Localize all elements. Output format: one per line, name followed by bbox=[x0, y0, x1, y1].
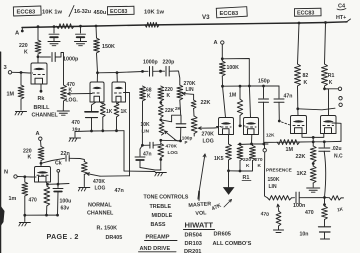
grid wire V2b from normal volume bbox=[124, 93, 130, 176]
wire cathode bus bbox=[48, 183, 70, 186]
node 220K-22K bbox=[159, 101, 162, 104]
svg-text:LOG: LOG bbox=[168, 150, 179, 156]
wire bottom bus normal bbox=[25, 214, 58, 216]
svg-text:ECC83: ECC83 bbox=[17, 10, 36, 16]
svg-text:R1: R1 bbox=[243, 175, 250, 181]
triode V4b bbox=[321, 116, 337, 134]
svg-text:1M: 1M bbox=[229, 93, 236, 99]
svg-text:82: 82 bbox=[303, 73, 309, 79]
svg-text:270: 270 bbox=[255, 157, 263, 163]
svg-text:V3: V3 bbox=[202, 14, 210, 21]
svg-text:K: K bbox=[304, 80, 308, 86]
svg-text:CHANNEL: CHANNEL bbox=[87, 211, 114, 217]
potentiometer 10K middle bbox=[159, 122, 164, 136]
svg-text:VOL: VOL bbox=[195, 210, 207, 217]
capacitor 22n coupling bbox=[41, 158, 65, 163]
svg-text:470: 470 bbox=[29, 198, 38, 204]
svg-text:K: K bbox=[246, 163, 250, 169]
triode V2a bbox=[90, 82, 104, 102]
svg-text:DR504: DR504 bbox=[185, 233, 203, 239]
resistor 10K 1W (rail right) bbox=[145, 22, 159, 27]
capacitor tone electrolytic bbox=[140, 145, 142, 156]
capacitor 100p bbox=[176, 123, 186, 125]
resistor 220K normal plate load bbox=[38, 147, 44, 161]
svg-text:BRILL: BRILL bbox=[34, 105, 51, 111]
svg-text:10K 1w: 10K 1w bbox=[144, 10, 164, 16]
node grid junction bbox=[20, 71, 23, 74]
ground tone stack bbox=[155, 172, 166, 174]
wire V3 cathode bus bbox=[238, 143, 268, 146]
wire bbox=[53, 25, 56, 28]
svg-text:470K: 470K bbox=[93, 179, 105, 185]
svg-text:150p: 150p bbox=[258, 79, 270, 85]
wire to 100p bbox=[161, 115, 181, 123]
svg-text:1M: 1M bbox=[7, 92, 15, 98]
resistor 1K5 V3 cathode bbox=[228, 135, 230, 145]
triode V1a brill bbox=[31, 63, 47, 84]
ground V3 bbox=[228, 171, 230, 187]
resistor 1K V2b cathode bbox=[117, 102, 120, 104]
capacitor 16-32u (second) bbox=[80, 26, 82, 33]
ground 1K2 bbox=[307, 187, 320, 189]
capacitor 100u 63v bbox=[57, 184, 59, 187]
svg-text:DR605: DR605 bbox=[214, 232, 231, 238]
wire 68K down bbox=[141, 101, 143, 145]
svg-text:K: K bbox=[24, 50, 28, 56]
tube label box V2 ECC83 bbox=[107, 6, 134, 14]
node bass bottom bbox=[159, 158, 162, 161]
svg-text:DR201: DR201 bbox=[184, 249, 201, 253]
wire V4b plate feed bbox=[325, 89, 329, 116]
wire HT rail bbox=[22, 22, 347, 28]
capacitor 100n bbox=[292, 197, 295, 199]
terminal jack tip bbox=[338, 87, 341, 90]
resistor 22K master bbox=[191, 100, 196, 109]
svg-text:DR103: DR103 bbox=[185, 241, 202, 247]
potentiometer 470K LOG bass bbox=[160, 140, 162, 143]
wire V3a plate drop bbox=[223, 86, 226, 117]
grid wire V3a bbox=[217, 126, 221, 128]
capacitor 16-32u (first) bbox=[53, 27, 55, 33]
resistor 270K tail bbox=[252, 144, 254, 146]
node NFB junction bbox=[323, 196, 326, 199]
wire to treble pot bbox=[178, 71, 180, 85]
svg-text:LOG: LOG bbox=[95, 186, 106, 192]
node rail to 82K bbox=[298, 22, 301, 25]
svg-text:R₁ 150K: R₁ 150K bbox=[97, 226, 118, 232]
resistor R1 (150K) bbox=[325, 23, 326, 65]
resistor 470 NFB bbox=[324, 198, 326, 207]
wire V2 cathode return (L) bbox=[124, 131, 155, 172]
node V2 plate rail bbox=[96, 71, 99, 74]
node junction rail to 220K bbox=[37, 25, 40, 28]
wire NFB bus bbox=[265, 141, 342, 142]
capacitor 47n tone bbox=[141, 144, 144, 147]
wiper brill volume bbox=[68, 93, 91, 95]
node normal plate bbox=[40, 162, 43, 165]
node 22K bottom bbox=[159, 118, 162, 121]
svg-text:47n: 47n bbox=[115, 188, 124, 194]
resistor 68K bbox=[140, 86, 146, 101]
svg-text:CHANNEL: CHANNEL bbox=[32, 113, 59, 119]
resistor 82K bbox=[298, 23, 300, 64]
svg-text:K: K bbox=[147, 94, 151, 100]
svg-text:PREAMP: PREAMP bbox=[146, 235, 170, 241]
svg-text:2K: 2K bbox=[175, 106, 182, 111]
resistor 220K brill plate load bbox=[37, 27, 39, 40]
svg-text:1m: 1m bbox=[9, 196, 17, 202]
svg-text:12K: 12K bbox=[266, 133, 275, 138]
svg-text:PRESENCE: PRESENCE bbox=[266, 168, 292, 173]
node below bbox=[323, 203, 326, 206]
triode V4a bbox=[291, 116, 307, 134]
node 82K out bbox=[296, 107, 299, 110]
wire to jack ring bbox=[298, 108, 335, 110]
node 47n out bbox=[278, 102, 280, 120]
terminal presence in bbox=[263, 149, 266, 152]
wire V3 plate bus bbox=[223, 85, 280, 87]
svg-text:P: P bbox=[185, 140, 188, 145]
triode V1b normal bbox=[35, 167, 51, 183]
capacitor 150p bbox=[263, 86, 265, 98]
wire V4 cathode bus bbox=[302, 134, 324, 138]
svg-text:470: 470 bbox=[72, 120, 81, 126]
tube label box V4 ECC83 bbox=[294, 8, 321, 16]
svg-text:220: 220 bbox=[19, 43, 28, 49]
potentiometer 270K LOG master bbox=[191, 116, 197, 134]
resistor 1M normal grid bbox=[24, 177, 26, 182]
svg-text:Rk: Rk bbox=[38, 96, 45, 102]
node normal grid bbox=[23, 175, 26, 178]
wire 270K bottom bbox=[240, 167, 253, 171]
svg-text:1K: 1K bbox=[106, 109, 113, 115]
resistor 1K to jack bbox=[325, 197, 330, 199]
svg-text:ECC83: ECC83 bbox=[297, 11, 314, 17]
svg-text:22K: 22K bbox=[296, 154, 306, 160]
triode V3a bbox=[219, 118, 234, 135]
svg-text:22K: 22K bbox=[201, 100, 211, 106]
svg-text:16-32u: 16-32u bbox=[74, 9, 91, 15]
svg-text:22n: 22n bbox=[61, 151, 70, 157]
wire brill cathode bbox=[40, 84, 42, 91]
svg-text:A: A bbox=[214, 40, 218, 46]
node 22K-1K2 bbox=[312, 162, 315, 165]
svg-text:1K2: 1K2 bbox=[297, 171, 307, 177]
potentiometer presence element bbox=[268, 196, 292, 200]
svg-text:LOG: LOG bbox=[203, 139, 214, 145]
triode V3b bbox=[244, 118, 259, 135]
wiper treble pot bbox=[183, 92, 192, 95]
wire 1000p to volume pot bbox=[63, 57, 65, 85]
svg-text:10K: 10K bbox=[141, 122, 151, 128]
svg-text:270K: 270K bbox=[202, 132, 215, 138]
resistor 10K 1W (rail left) bbox=[57, 24, 75, 29]
svg-text:.02u: .02u bbox=[332, 146, 342, 152]
resistor 100K V3a plate bbox=[221, 59, 223, 61]
capacitor .02u NC bbox=[323, 142, 325, 147]
svg-text:K: K bbox=[167, 93, 171, 99]
node normal gnd bus bbox=[23, 214, 26, 217]
grid wire V4a bbox=[282, 122, 290, 125]
resistor 220K tail bbox=[239, 143, 242, 146]
wire normal cathode bbox=[46, 182, 48, 184]
svg-text:1K5: 1K5 bbox=[214, 156, 224, 162]
capacitor 10n bbox=[324, 220, 326, 227]
svg-text:A: A bbox=[36, 131, 40, 137]
svg-text:MIDDLE: MIDDLE bbox=[152, 213, 173, 219]
svg-text:22K: 22K bbox=[165, 108, 175, 114]
terminal jack ring bbox=[339, 97, 342, 100]
resistor 1K2 bbox=[312, 164, 314, 167]
svg-text:N.C: N.C bbox=[334, 154, 343, 160]
svg-text:NORMAL: NORMAL bbox=[88, 203, 112, 209]
potentiometer 270K LIN treble bbox=[177, 85, 183, 100]
resistor 1K V2a cathode bbox=[100, 102, 103, 104]
svg-text:C4: C4 bbox=[338, 4, 346, 10]
svg-text:470: 470 bbox=[305, 210, 314, 216]
wiper master pot bbox=[199, 127, 215, 129]
wire bbox=[79, 25, 82, 28]
wire V2 cathode bus bbox=[75, 130, 124, 133]
wire R1 bus bbox=[229, 170, 241, 172]
svg-text:10K 1w: 10K 1w bbox=[42, 10, 62, 16]
resistor 22K V4 bbox=[312, 142, 314, 146]
svg-text:HT+: HT+ bbox=[336, 15, 346, 21]
ground normal volume bbox=[79, 187, 90, 189]
potentiometer 470K LOG brill volume bbox=[61, 85, 67, 101]
wiper presence bbox=[278, 204, 279, 211]
node V2 plate out bbox=[141, 70, 144, 73]
svg-text:LIN: LIN bbox=[142, 129, 150, 134]
capacitor 220p coupling bbox=[161, 70, 165, 72]
tube label box V1 ECC83 bbox=[13, 6, 41, 16]
svg-text:PAGE . 2: PAGE . 2 bbox=[47, 232, 79, 241]
ground normal bbox=[24, 215, 26, 221]
svg-text:63v: 63v bbox=[61, 206, 70, 212]
svg-text:BASS: BASS bbox=[151, 222, 166, 228]
svg-text:Ck: Ck bbox=[55, 161, 62, 167]
grid wire V3b bbox=[239, 124, 242, 127]
capacitor 1000p brill coupling bbox=[40, 56, 51, 58]
svg-text:470: 470 bbox=[260, 211, 269, 218]
capacitor 1000p coupling bbox=[143, 70, 149, 72]
svg-text:450u: 450u bbox=[94, 10, 107, 16]
svg-text:220p: 220p bbox=[163, 60, 175, 66]
resistor 150K V2 plate load bbox=[95, 25, 98, 28]
svg-text:K: K bbox=[28, 155, 32, 161]
svg-text:150K: 150K bbox=[268, 177, 280, 183]
svg-text:LIN: LIN bbox=[186, 87, 194, 93]
svg-text:DR405: DR405 bbox=[106, 235, 123, 241]
node brill plate bbox=[37, 55, 40, 58]
node between caps bbox=[159, 70, 162, 73]
svg-text:TREBLE: TREBLE bbox=[150, 204, 172, 210]
svg-text:10n: 10n bbox=[300, 232, 309, 238]
resistor 1M V3b grid bbox=[239, 85, 242, 88]
svg-text:470K: 470K bbox=[166, 144, 178, 150]
resistor 470 normal cathode bbox=[44, 186, 50, 206]
grid wire V4b hook bbox=[334, 123, 341, 141]
potentiometer 470K LOG normal volume bbox=[81, 162, 87, 175]
svg-text:ECC83: ECC83 bbox=[220, 11, 239, 17]
scan edge artifact bbox=[0, 52, 2, 253]
wire tone bottom bbox=[161, 139, 181, 142]
svg-text:AND DRIVE: AND DRIVE bbox=[140, 246, 171, 252]
svg-text:LOG.: LOG. bbox=[66, 98, 79, 104]
node V3 feed bbox=[221, 57, 224, 60]
svg-text:100u: 100u bbox=[60, 199, 72, 205]
svg-text:LIN: LIN bbox=[269, 184, 277, 190]
wire V3 feed right bbox=[222, 59, 249, 87]
node rail to R1 bbox=[324, 21, 327, 24]
capacitor 47n interstage bbox=[278, 86, 280, 98]
svg-text:1000p: 1000p bbox=[63, 57, 79, 63]
svg-text:K: K bbox=[258, 163, 262, 169]
svg-text:K: K bbox=[329, 80, 333, 86]
ground brill volume bbox=[57, 110, 69, 112]
wiper middle pot bbox=[165, 131, 176, 140]
svg-text:47n: 47n bbox=[284, 94, 293, 100]
triode V2b bbox=[112, 82, 126, 102]
svg-text:1K: 1K bbox=[121, 109, 128, 115]
svg-text:R1: R1 bbox=[328, 73, 335, 79]
node V3a plate bbox=[221, 85, 224, 88]
svg-text:100K: 100K bbox=[227, 65, 240, 71]
svg-text:100n: 100n bbox=[293, 203, 305, 209]
terminal D brill input bbox=[8, 71, 11, 74]
svg-text:HIWATT: HIWATT bbox=[185, 221, 214, 230]
svg-text:ALL COMBO'S: ALL COMBO'S bbox=[213, 241, 252, 247]
node R1 out bbox=[323, 87, 326, 90]
ground V2 cathode bbox=[74, 132, 76, 138]
capacitor 470/16u V2 cathode bypass bbox=[92, 102, 97, 111]
wire V3b plate drop bbox=[249, 86, 250, 118]
svg-text:TONE CONTROLS: TONE CONTROLS bbox=[144, 195, 189, 201]
resistor 1M NFB bbox=[277, 140, 300, 145]
wiper bass pot long arrow bbox=[198, 154, 205, 199]
resistor 1M brill grid bbox=[20, 73, 22, 85]
resistor 22K tone lower bbox=[160, 103, 162, 105]
wire V2 plate rail bbox=[98, 72, 143, 73]
wiper wire to V2a grid bbox=[91, 93, 94, 95]
svg-text:1M: 1M bbox=[286, 147, 294, 153]
ground brill grid bbox=[16, 111, 27, 113]
svg-text:ECC83: ECC83 bbox=[110, 9, 127, 15]
svg-text:1000p: 1000p bbox=[143, 60, 158, 66]
wiper normal volume bbox=[87, 174, 100, 177]
node bbox=[248, 85, 251, 88]
svg-text:N: N bbox=[4, 170, 8, 176]
resistor 220K tone bbox=[158, 86, 164, 101]
svg-text:150K: 150K bbox=[102, 44, 115, 50]
wire to output jack tip bbox=[325, 88, 339, 90]
